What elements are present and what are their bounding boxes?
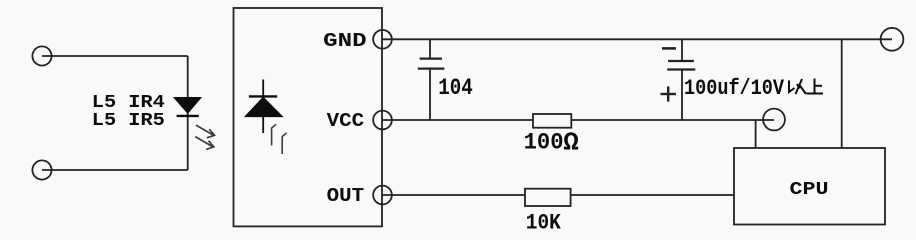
svg-text:104: 104 <box>438 75 473 101</box>
svg-text:L5 IR5: L5 IR5 <box>92 110 165 131</box>
svg-text:VCC: VCC <box>327 110 365 132</box>
svg-text:100: 100 <box>524 130 564 156</box>
svg-text:Ω: Ω <box>563 128 579 158</box>
svg-text:CPU: CPU <box>790 180 829 200</box>
svg-text:10K: 10K <box>526 209 562 235</box>
svg-text:OUT: OUT <box>327 185 365 207</box>
svg-text:GND: GND <box>323 30 367 52</box>
svg-text:100uf/10V: 100uf/10V <box>684 75 784 101</box>
